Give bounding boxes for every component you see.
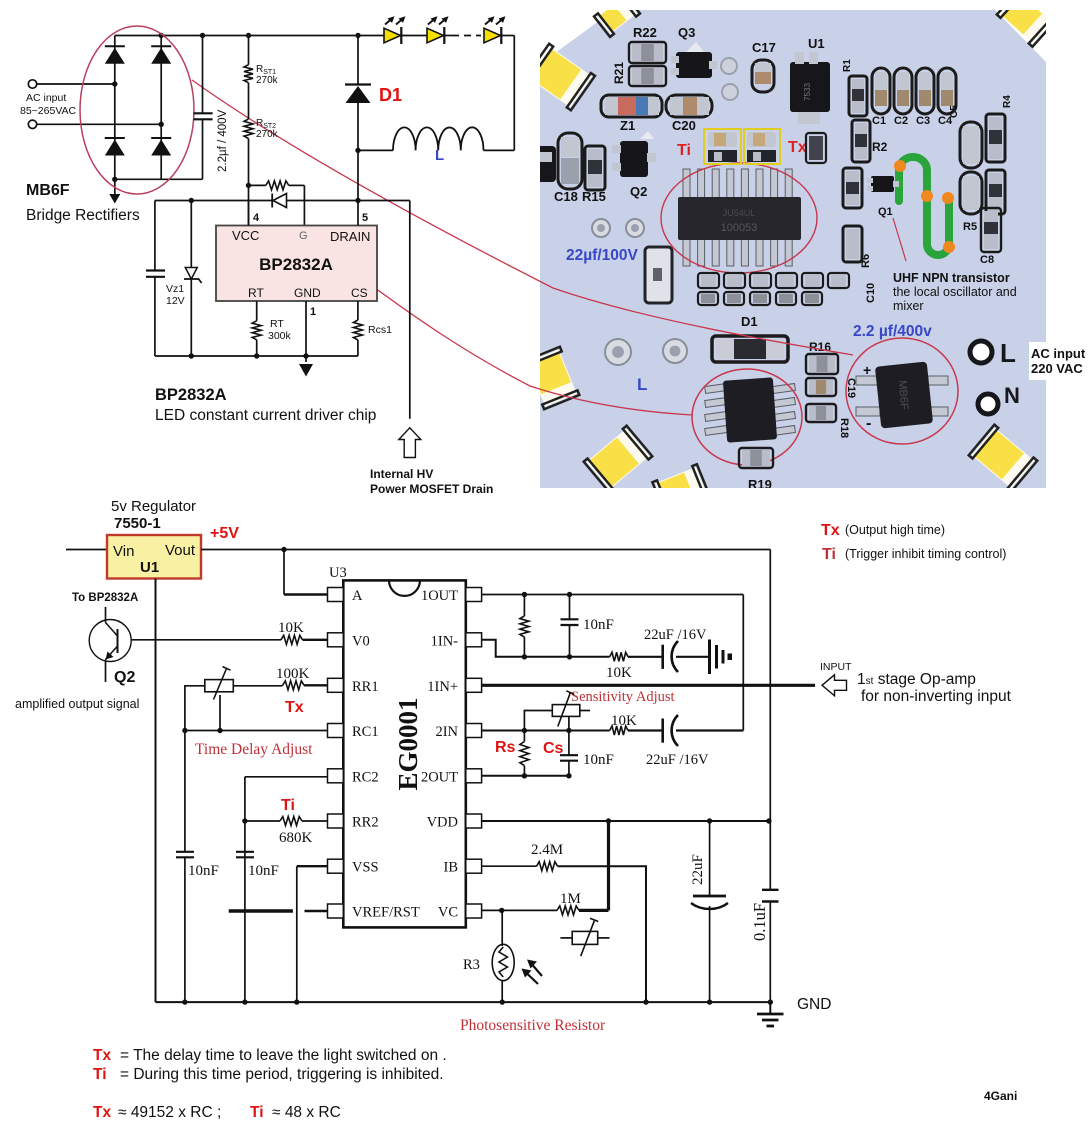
varicap rect	[572, 931, 598, 944]
MB6F bridge body	[875, 361, 933, 428]
VSS wire	[297, 865, 328, 867]
svg-text:= The delay time to leave the: = The delay time to leave the light swit…	[120, 1047, 447, 1064]
svg-text:2IN: 2IN	[435, 724, 458, 740]
wire IB row	[482, 865, 537, 867]
svg-text:RC1: RC1	[352, 724, 379, 740]
svg-text:10nF: 10nF	[583, 752, 614, 768]
svg-text:4: 4	[253, 212, 260, 224]
SOIC-8 chip pins right	[773, 383, 796, 435]
node dot GND rail	[303, 353, 308, 358]
red ellipse around bridge	[80, 26, 194, 194]
chip pin boxes right	[466, 588, 482, 919]
MB6F bridge pins left	[856, 376, 880, 416]
svg-text:R18: R18	[838, 418, 850, 438]
wire Q2 emitter down	[105, 660, 107, 683]
svg-text:L: L	[1000, 338, 1016, 368]
capacitor C17 on PCB	[752, 60, 774, 92]
resistor R21 on PCB	[629, 66, 666, 86]
bottom rail left part	[156, 1001, 771, 1003]
svg-text:10K: 10K	[611, 713, 637, 729]
wire U1 output down	[155, 579, 157, 1003]
svg-text:RR2: RR2	[352, 815, 379, 831]
wire VC row from pin	[482, 909, 557, 911]
svg-text:Q2: Q2	[630, 184, 647, 199]
node dot RC1-left	[182, 728, 187, 733]
AC terminal 2 circle	[28, 120, 36, 128]
svg-text:Rcs1: Rcs1	[368, 324, 392, 336]
svg-text:VDD: VDD	[427, 815, 458, 831]
PCB photo background panel	[540, 10, 1046, 488]
wire R3 bottom	[501, 980, 503, 1002]
resistor R1	[849, 76, 867, 116]
yellow box Ti component	[704, 129, 741, 164]
svg-text:Ti: Ti	[250, 1104, 264, 1121]
svg-text:BP2832A: BP2832A	[155, 386, 227, 404]
wire trimmer Cs right stub	[580, 710, 590, 712]
svg-text:DRAIN: DRAIN	[330, 229, 370, 244]
node dot 1IN- r	[522, 654, 527, 659]
component R3pcb left of Q1	[843, 168, 862, 208]
resistor Rcs1	[353, 320, 362, 340]
svg-text:270k: 270k	[256, 129, 279, 140]
svg-text:22µf/100V: 22µf/100V	[566, 247, 639, 264]
AC terminal L	[970, 338, 1016, 368]
resistor 680K (RR2)	[280, 817, 302, 826]
bridge left leg	[114, 36, 116, 180]
wire trimmer left	[185, 686, 205, 731]
caption formula	[93, 1104, 341, 1121]
wire LED1 to LED2	[402, 35, 428, 37]
svg-text:(Output high time): (Output high time)	[845, 523, 945, 537]
svg-text:VC: VC	[438, 905, 458, 921]
node dot 1IN- c	[567, 654, 572, 659]
svg-text:2.2 µf/400v: 2.2 µf/400v	[853, 323, 932, 340]
small parts row below main IC	[698, 273, 849, 288]
wire AC terminal 1 to left leg	[37, 83, 115, 85]
regulator U1 box	[107, 535, 201, 579]
wire LED2 to dashed	[445, 35, 453, 37]
svg-text:4Gani: 4Gani	[984, 1089, 1017, 1103]
svg-text:7533: 7533	[803, 83, 812, 101]
svg-text:220 VAC: 220 VAC	[1031, 361, 1083, 376]
svg-text:+5V: +5V	[210, 525, 239, 542]
bridge bottom rail	[115, 178, 203, 180]
resistor R2 area	[852, 120, 870, 162]
R3 light arrows	[522, 960, 543, 985]
svg-text:To BP2832A: To BP2832A	[72, 592, 138, 604]
caption Ti inhibit	[93, 1066, 444, 1083]
svg-text:D1: D1	[741, 314, 758, 329]
svg-text:MB6F: MB6F	[896, 380, 910, 410]
node dot rail 10nF-left	[182, 999, 187, 1004]
svg-text:10nF: 10nF	[583, 617, 614, 633]
wire VCC node line left section	[155, 200, 272, 202]
caption UHF NPN transistor	[893, 271, 1017, 313]
wire right corner down to inductor line	[513, 36, 515, 151]
hollow arrow Internal HV	[399, 428, 421, 458]
resistor 1M	[557, 906, 579, 915]
node dot RT bottom	[254, 353, 259, 358]
white box for AC input caption	[1029, 342, 1091, 380]
LED bottom-left 2	[584, 426, 653, 493]
LED1 light arrows	[385, 16, 406, 24]
svg-text:Internal HV: Internal HV	[370, 467, 433, 481]
resistor 10K (V0)	[281, 635, 303, 644]
svg-text:C2: C2	[894, 115, 908, 127]
part R18 on PCB	[806, 404, 836, 422]
svg-text:G: G	[299, 230, 308, 242]
chip U3 EG0001 body	[343, 580, 466, 927]
wire VDD row	[482, 820, 769, 822]
svg-text:CS: CS	[351, 286, 368, 300]
svg-text:5: 5	[362, 212, 368, 224]
svg-text:EG0001: EG0001	[393, 697, 423, 790]
chip pin wire VCC	[248, 201, 250, 226]
wire trimmer right to 100K	[233, 685, 282, 687]
varicap leads	[560, 937, 609, 939]
IC SOP-16 body	[678, 197, 801, 240]
SOIC-8 chip body	[723, 377, 777, 442]
svg-text:Photosensitive Resistor: Photosensitive Resistor	[460, 1017, 606, 1034]
node dot VDD thick	[606, 818, 611, 823]
svg-text:Ti: Ti	[677, 142, 691, 159]
wire Rcs1 to rail	[357, 340, 359, 356]
svg-text:Vin: Vin	[113, 543, 134, 560]
wire trimmer Cs left	[524, 711, 552, 731]
wire 22uF2 to vertical	[676, 729, 743, 731]
svg-text:R16: R16	[809, 340, 831, 354]
svg-text:Rs: Rs	[495, 739, 516, 756]
wire G node to MOSFET drain corner	[358, 200, 410, 202]
red circle around main IC	[661, 163, 817, 273]
resistor vertical (1OUT)	[520, 595, 529, 657]
svg-text:1IN-: 1IN-	[431, 633, 459, 649]
zener Z1 on PCB	[601, 95, 662, 117]
AC terminal 1 circle	[28, 80, 36, 88]
resistor 10K (2IN)	[610, 726, 628, 735]
resistor RST2	[244, 119, 253, 139]
svg-text:Tx: Tx	[788, 139, 807, 156]
svg-text:U3: U3	[329, 565, 347, 581]
svg-text:RC2: RC2	[352, 769, 379, 785]
capacitors C1 C2 C3 C4	[872, 68, 956, 114]
trimmer Tx wiper down	[219, 695, 221, 731]
svg-text:Tx: Tx	[93, 1047, 111, 1064]
LED bottom-right	[969, 425, 1038, 492]
wire A branch	[283, 550, 285, 595]
label Tx Output high time	[821, 522, 945, 539]
wire 1IN- jog	[482, 640, 610, 657]
svg-text:Vout: Vout	[165, 542, 196, 559]
svg-text:AC input: AC input	[26, 92, 66, 104]
wire +5V rail right of U1	[201, 549, 770, 551]
svg-text:R3: R3	[463, 957, 480, 973]
resistor R15 on PCB	[585, 146, 605, 190]
capacitor C20 on PCB	[666, 95, 712, 117]
svg-text:1M: 1M	[560, 891, 581, 907]
zener Vz1 symbol	[184, 268, 202, 284]
wire 10K2 to 22uF2	[628, 729, 663, 731]
INPUT arrow	[822, 675, 847, 696]
svg-text:GND: GND	[797, 996, 831, 1013]
transistor Q2 on PCB	[612, 131, 656, 177]
wire CS pin down	[357, 301, 359, 320]
ground symbol GND	[757, 1002, 784, 1026]
svg-text:Tx: Tx	[93, 1104, 111, 1121]
node dot right leg top	[159, 33, 164, 38]
wire 680K left	[245, 820, 280, 822]
wire D1 to inductor node	[357, 103, 359, 201]
svg-text:10K: 10K	[606, 665, 632, 681]
wire RC1 row	[185, 730, 328, 732]
node dot rail RC2	[242, 999, 247, 1004]
MB6F bridge pins right	[928, 376, 948, 416]
wire +5V rail left of U1	[66, 549, 107, 551]
IC SOP-16 pins bottom	[683, 238, 792, 266]
svg-text:L: L	[637, 375, 647, 394]
left edge component sliver	[534, 146, 556, 182]
wire 2OUT row	[482, 775, 570, 777]
resistor R7	[986, 170, 1005, 214]
node dot inductor left	[355, 148, 360, 153]
svg-text:Sensitivity Adjust: Sensitivity Adjust	[571, 689, 675, 705]
svg-text:for non-inverting input: for non-inverting input	[861, 688, 1012, 705]
svg-text:100K: 100K	[276, 666, 310, 682]
node dot VC R3	[499, 908, 504, 913]
LED2 symbol	[427, 27, 444, 44]
bridge diode bottom-left	[105, 138, 125, 156]
svg-text:LED constant current driver ch: LED constant current driver chip	[155, 407, 376, 424]
svg-text:amplified output signal: amplified output signal	[15, 697, 139, 711]
bridge diode top-left	[105, 46, 125, 64]
svg-text:VREF/RST: VREF/RST	[352, 905, 420, 921]
svg-text:10K: 10K	[278, 620, 304, 636]
VREF thick bar	[229, 909, 293, 912]
ground arrow under GND	[299, 364, 313, 377]
LED3 light arrows	[485, 16, 506, 24]
red circle around MB6F	[846, 338, 958, 444]
svg-text:12V: 12V	[166, 295, 185, 307]
svg-text:Bridge Rectifiers: Bridge Rectifiers	[26, 207, 140, 224]
svg-text:270k: 270k	[256, 75, 279, 86]
svg-text:22uF: 22uF	[690, 854, 706, 885]
svg-text:Q2: Q2	[114, 669, 135, 686]
capacitor Cs	[560, 731, 578, 776]
trimmer Cs rect	[552, 705, 580, 717]
right vertical 743	[742, 595, 744, 731]
LED bottom-mid partial	[652, 464, 709, 514]
wire RST1 to RST2	[248, 83, 250, 119]
svg-text:BP2832A: BP2832A	[259, 255, 333, 274]
svg-text:C5: C5	[949, 105, 960, 118]
svg-text:Ti: Ti	[822, 546, 836, 563]
wire 2.4M to corner	[558, 866, 647, 1002]
LED left edge	[525, 44, 595, 111]
resistor 100K (RR1)	[283, 681, 304, 690]
wire inductor left lead	[358, 149, 393, 151]
svg-text:R1: R1	[842, 59, 853, 72]
svg-text:RT: RT	[248, 286, 264, 300]
resistor R4	[986, 114, 1005, 162]
svg-text:R4: R4	[1002, 95, 1013, 108]
svg-text:2.2µf / 400V: 2.2µf / 400V	[217, 109, 229, 172]
inductor L humps	[393, 127, 484, 150]
wire LED3 to corner	[502, 35, 515, 37]
svg-text:C18: C18	[554, 189, 578, 204]
wire Vz1 top	[190, 201, 192, 268]
svg-text:AC input: AC input	[1031, 346, 1086, 361]
part C19 on PCB	[806, 378, 836, 396]
svg-text:Tx: Tx	[821, 522, 840, 539]
bypass diode (points left)	[272, 194, 286, 208]
svg-text:MB6F: MB6F	[26, 182, 70, 199]
svg-text:100053: 100053	[721, 222, 758, 234]
thick vertical VDD-VC	[607, 821, 610, 910]
node dot rail 22uF	[707, 999, 712, 1004]
wire 1OUT row	[482, 594, 744, 596]
svg-text:U1: U1	[140, 559, 159, 576]
node dot left leg AC1	[112, 81, 117, 86]
node dot rail VSS	[294, 999, 299, 1004]
wire 10nF-left vertical	[184, 731, 186, 1003]
svg-text:10nF: 10nF	[188, 863, 219, 879]
svg-text:C20: C20	[672, 118, 696, 133]
bridge right leg	[160, 36, 162, 180]
svg-text:Power MOSFET Drain: Power MOSFET Drain	[370, 482, 493, 496]
PCB corner cutout top-left	[540, 10, 614, 64]
node dot right leg AC2	[159, 122, 164, 127]
svg-text:0.1uF: 0.1uF	[750, 903, 769, 941]
chip notch	[389, 580, 420, 595]
svg-text:1IN+: 1IN+	[427, 679, 458, 695]
svg-text:R22: R22	[633, 25, 657, 40]
bridge diode bottom-right	[151, 138, 171, 156]
resistor R5	[981, 208, 1001, 252]
screw hole 3	[605, 339, 631, 365]
svg-text:≈ 48 x RC: ≈ 48 x RC	[272, 1104, 341, 1121]
yellow box Tx component	[744, 129, 780, 164]
wire cap 2.2uF top	[202, 36, 204, 114]
wire left cap top	[154, 201, 156, 271]
svg-text:U1: U1	[808, 36, 825, 51]
node dot 2IN rs	[522, 728, 527, 733]
label Ti Trigger inhibit	[822, 546, 1006, 563]
svg-text:2.4M: 2.4M	[531, 842, 563, 858]
capacitor 10nF left plates	[176, 852, 194, 858]
svg-text:≈ 49152 x RC ;: ≈ 49152 x RC ;	[118, 1104, 221, 1121]
wire rail to D1	[357, 36, 359, 85]
red annotation line from BP2832A to SOIC-8 circle	[344, 265, 692, 415]
svg-text:Cs: Cs	[543, 740, 564, 757]
wire 100K to RR1 pin	[304, 684, 328, 686]
svg-text:-: -	[866, 415, 871, 432]
svg-text:V0: V0	[352, 633, 370, 649]
node dot A-branch	[281, 547, 286, 552]
red circle around SOIC-8	[692, 369, 802, 465]
labels R6 C10 rotated	[860, 254, 877, 303]
orange node dots on trace	[894, 160, 955, 253]
capacitor 10nF (1OUT)	[561, 595, 579, 657]
svg-text:C10: C10	[865, 283, 877, 303]
wire top rail segment bridge to LED1	[115, 35, 384, 37]
wire 1M to thick corner	[579, 909, 609, 912]
svg-text:RR1: RR1	[352, 679, 379, 695]
bottom rail of BP2832A circuit	[155, 355, 358, 357]
LED top-right corner	[997, 0, 1055, 47]
svg-text:10nF: 10nF	[248, 863, 279, 879]
node dot rail 646	[643, 999, 648, 1004]
svg-text:A: A	[352, 588, 363, 604]
red annotation line from bridge ellipse to MB6F circle	[192, 80, 853, 355]
wire R3 top	[501, 910, 503, 946]
capacitor 10nF second plates	[236, 852, 254, 858]
node dot cap top	[200, 33, 205, 38]
wire RST2 down to VCC node	[248, 139, 250, 226]
svg-text:Q3: Q3	[678, 25, 695, 40]
capacitor 0.1uF plates	[762, 890, 779, 902]
svg-text:1: 1	[310, 306, 316, 318]
diode D1 symbol	[345, 85, 371, 104]
svg-text:INPUT: INPUT	[820, 661, 852, 673]
svg-text:C8: C8	[980, 254, 994, 266]
wire A branch stub	[284, 593, 328, 595]
node dot 2OUT rs	[522, 773, 527, 778]
resistor R16 on PCB	[806, 354, 838, 374]
svg-text:mixer: mixer	[893, 299, 924, 313]
svg-text:C3: C3	[916, 115, 930, 127]
trimmer Tx arrow	[214, 667, 231, 700]
wire GND pin down	[305, 301, 307, 362]
dark part right of Tx box	[806, 133, 826, 163]
svg-text:Ti: Ti	[281, 797, 295, 814]
wire drain corner down	[409, 201, 411, 419]
LED3 symbol	[484, 27, 501, 44]
svg-text:Vz1: Vz1	[166, 283, 184, 295]
svg-text:JU54UL: JU54UL	[723, 208, 756, 218]
LED1 symbol	[384, 27, 401, 44]
node dot VDD 22uF	[707, 818, 712, 823]
capacitor C18 on PCB	[558, 133, 582, 189]
wire RT pin down	[256, 301, 258, 321]
svg-text:22uF /16V: 22uF /16V	[646, 752, 709, 768]
wire 2IN row	[482, 730, 610, 732]
wire inductor right end	[484, 149, 515, 151]
node dot 1OUT c1	[567, 592, 572, 597]
chip pin labels left	[352, 588, 420, 921]
small parts row 2	[698, 292, 822, 305]
capacitor 22uF/16V (1IN-)	[663, 641, 678, 672]
svg-text:D1: D1	[379, 85, 402, 105]
LED2 light arrows	[428, 16, 449, 24]
node dot D1 top	[355, 33, 360, 38]
wire 22uF to ground	[676, 656, 708, 658]
component below R3pcb	[843, 226, 862, 262]
svg-text:300k: 300k	[268, 330, 292, 342]
svg-text:+: +	[863, 362, 871, 378]
node dot 1OUT r1	[522, 592, 527, 597]
svg-text:L: L	[435, 147, 444, 164]
svg-text:R15: R15	[582, 189, 606, 204]
capacitor 22uF vertical	[691, 821, 728, 1002]
wire trimmer Cs wiper	[568, 716, 570, 730]
capacitor 22uF/16V (2IN)	[663, 715, 678, 746]
labels C1 C2 C3 C4	[872, 115, 953, 127]
AC terminal N	[978, 383, 1020, 414]
resistor 2.4M	[537, 862, 558, 871]
svg-text:R2: R2	[872, 140, 888, 154]
svg-text:Tx: Tx	[285, 699, 304, 716]
ground symbol rotated (1IN-)	[710, 640, 733, 675]
